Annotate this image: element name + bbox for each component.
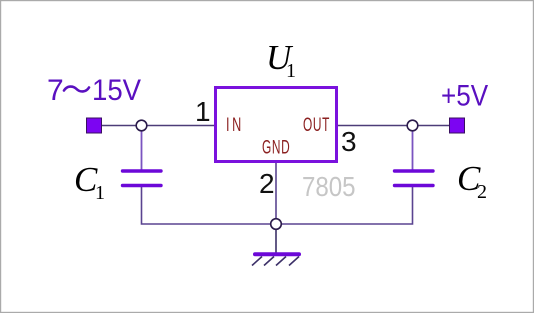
svg-text:IN: IN (226, 114, 244, 135)
svg-text:3: 3 (341, 126, 357, 157)
svg-text:+5V: +5V (441, 79, 488, 112)
wire: GND pin 2 from box to ground node (275, 163, 277, 219)
svg-text:1: 1 (95, 182, 105, 204)
input terminal (87, 118, 102, 133)
wire: ground node to ground symbol (275, 229, 277, 253)
svg-text:7: 7 (47, 74, 64, 107)
wire: C1 down and right to ground rail (142, 186, 277, 224)
wire: OUT pin 3 to right node (338, 125, 407, 127)
ground (252, 254, 299, 265)
svg-text:1: 1 (286, 60, 296, 82)
pin label GND (262, 138, 290, 158)
svg-text:OUT: OUT (303, 115, 330, 135)
pin label OUT (303, 115, 330, 135)
wire: left node to IN pin 1 (146, 125, 214, 127)
node: ground junction (271, 219, 282, 230)
svg-text:GND: GND (262, 138, 290, 158)
svg-text:1: 1 (195, 96, 211, 127)
value label 7805 (302, 170, 356, 202)
wire: left node down to C1 (141, 131, 143, 170)
wire: right node to right terminal (417, 125, 450, 127)
svg-text:2: 2 (477, 181, 487, 203)
node: output junction (407, 120, 418, 131)
pin label IN (226, 114, 244, 135)
wire: left terminal to node (101, 125, 136, 127)
capacitor C2 (395, 171, 434, 186)
svg-text:7805: 7805 (302, 170, 356, 202)
svg-text:15V: 15V (92, 74, 142, 107)
wire: C2 down and left to ground rail (276, 186, 413, 224)
regulator IC U1 (7805) (216, 88, 337, 162)
net label 7~15V (47, 74, 142, 107)
net label +5V (441, 79, 488, 112)
node: input junction (136, 120, 147, 131)
capacitor C1 (123, 171, 162, 186)
svg-text:2: 2 (259, 168, 275, 199)
wire: right node down to C2 (412, 131, 414, 170)
output terminal (450, 118, 465, 133)
